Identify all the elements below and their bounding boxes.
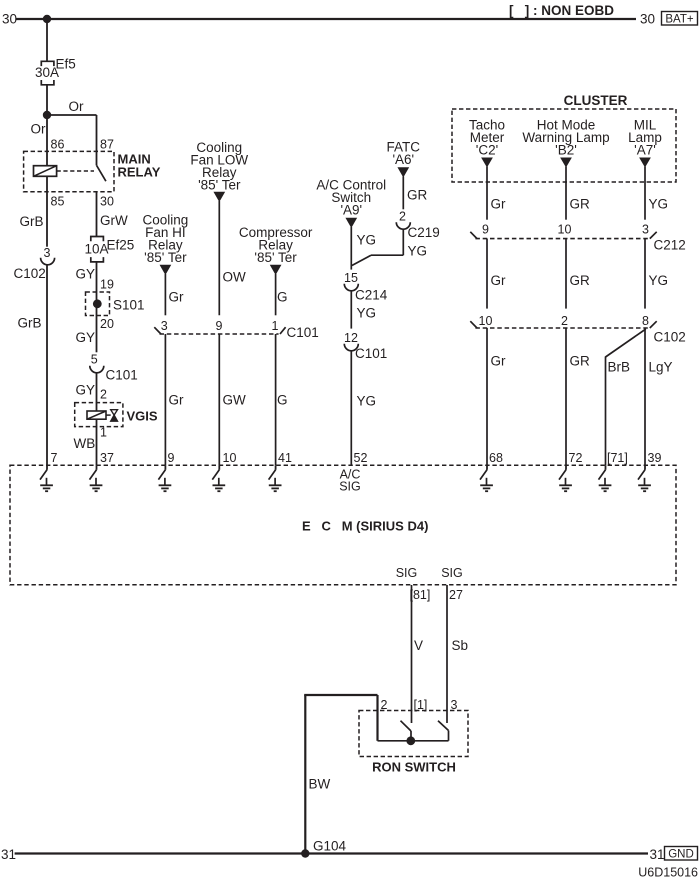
- svg-text:YG: YG: [357, 394, 377, 409]
- svg-text:5: 5: [91, 353, 98, 367]
- svg-text:WB: WB: [74, 436, 96, 451]
- svg-text:30A: 30A: [35, 65, 59, 80]
- svg-text:41: 41: [278, 451, 292, 465]
- svg-text:GY: GY: [76, 330, 96, 345]
- svg-text:12: 12: [344, 331, 358, 345]
- svg-text:20: 20: [100, 317, 114, 331]
- svg-text:9: 9: [216, 319, 223, 333]
- svg-text:SIG: SIG: [339, 480, 361, 494]
- svg-text:Ef25: Ef25: [107, 238, 135, 253]
- svg-text:Or: Or: [31, 122, 47, 137]
- svg-text:GY: GY: [76, 383, 96, 398]
- svg-text:Gr: Gr: [491, 197, 507, 212]
- svg-text:9: 9: [482, 223, 489, 237]
- svg-text:85: 85: [51, 195, 65, 209]
- svg-text:19: 19: [100, 278, 114, 292]
- svg-text:'A6': 'A6': [392, 152, 414, 167]
- svg-text:OW: OW: [223, 270, 247, 285]
- svg-text:7: 7: [51, 451, 58, 465]
- svg-text:BrB: BrB: [608, 360, 631, 375]
- svg-text:S101: S101: [113, 298, 145, 313]
- svg-text:31: 31: [1, 847, 16, 862]
- svg-text:LgY: LgY: [649, 360, 673, 375]
- svg-text:RELAY: RELAY: [118, 165, 161, 180]
- svg-text:10: 10: [558, 223, 572, 237]
- svg-text:U6D15016: U6D15016: [638, 866, 698, 880]
- svg-text:C212: C212: [654, 237, 686, 252]
- svg-text:27: 27: [449, 588, 463, 602]
- svg-text:GR: GR: [407, 188, 428, 203]
- svg-text:GrB: GrB: [18, 316, 42, 331]
- svg-text:10: 10: [223, 451, 237, 465]
- svg-text:8: 8: [642, 314, 649, 328]
- svg-text:CLUSTER: CLUSTER: [564, 93, 628, 108]
- svg-text:C101: C101: [106, 368, 138, 383]
- svg-text:GR: GR: [570, 273, 591, 288]
- svg-text:Gr: Gr: [491, 354, 507, 369]
- svg-text:YG: YG: [649, 197, 669, 212]
- svg-text:Sb: Sb: [452, 638, 469, 653]
- svg-text:YG: YG: [357, 306, 377, 321]
- svg-text:'85' Ter: '85' Ter: [254, 250, 297, 265]
- svg-text:87: 87: [100, 138, 114, 152]
- svg-text:'85' Ter: '85' Ter: [198, 178, 241, 193]
- svg-text:30: 30: [100, 195, 114, 209]
- svg-text:2: 2: [561, 314, 568, 328]
- svg-text:E C M (SIRIUS D4): E C M (SIRIUS D4): [302, 519, 428, 534]
- svg-text:2: 2: [399, 210, 406, 224]
- svg-text:GR: GR: [570, 197, 591, 212]
- svg-text:Gr: Gr: [169, 393, 185, 408]
- svg-text:72: 72: [569, 451, 583, 465]
- svg-text:GrB: GrB: [20, 214, 44, 229]
- svg-text:39: 39: [648, 451, 662, 465]
- svg-text:GrW: GrW: [100, 213, 128, 228]
- svg-text:10A: 10A: [85, 242, 109, 257]
- svg-text:[71]: [71]: [607, 451, 628, 465]
- svg-text:2: 2: [100, 388, 107, 402]
- svg-text:[81]: [81]: [410, 588, 431, 602]
- svg-text:'85' Ter: '85' Ter: [144, 250, 187, 265]
- svg-text:SIG: SIG: [441, 566, 463, 580]
- svg-text:Gr: Gr: [491, 273, 507, 288]
- svg-text:3: 3: [642, 223, 649, 237]
- svg-text:C102: C102: [14, 266, 46, 281]
- svg-text:C101: C101: [355, 346, 387, 361]
- svg-text:YG: YG: [649, 273, 669, 288]
- svg-text:GND: GND: [668, 848, 694, 860]
- svg-text:86: 86: [51, 138, 65, 152]
- svg-text:'A9': 'A9': [340, 203, 362, 218]
- svg-text:Or: Or: [69, 99, 85, 114]
- svg-text:9: 9: [168, 451, 175, 465]
- svg-text:31: 31: [650, 847, 665, 862]
- svg-text:C219: C219: [408, 225, 440, 240]
- svg-text:BW: BW: [309, 777, 331, 792]
- svg-text:30: 30: [640, 12, 655, 27]
- svg-text:G104: G104: [313, 839, 347, 854]
- svg-text:G: G: [277, 290, 288, 305]
- svg-text:GW: GW: [223, 393, 247, 408]
- svg-text:VGIS: VGIS: [127, 409, 158, 424]
- svg-text:C101: C101: [287, 325, 319, 340]
- svg-text:C102: C102: [654, 329, 686, 344]
- svg-text:[ ] : NON EOBD: [ ] : NON EOBD: [509, 3, 614, 18]
- svg-text:Gr: Gr: [169, 290, 185, 305]
- svg-text:YG: YG: [357, 233, 377, 248]
- svg-text:GY: GY: [76, 267, 96, 282]
- svg-text:1: 1: [272, 319, 279, 333]
- svg-text:1: 1: [100, 426, 107, 440]
- svg-text:'B2': 'B2': [555, 143, 577, 158]
- svg-text:10: 10: [479, 314, 493, 328]
- svg-text:V: V: [414, 638, 423, 653]
- svg-text:GR: GR: [570, 354, 591, 369]
- svg-text:3: 3: [161, 319, 168, 333]
- svg-text:37: 37: [100, 451, 114, 465]
- svg-text:RON SWITCH: RON SWITCH: [372, 760, 456, 775]
- svg-text:30: 30: [2, 12, 17, 27]
- svg-text:68: 68: [489, 451, 503, 465]
- svg-text:BAT+: BAT+: [665, 13, 694, 25]
- svg-text:YG: YG: [408, 243, 428, 258]
- svg-text:'A7': 'A7': [634, 143, 656, 158]
- svg-text:C214: C214: [355, 288, 388, 303]
- svg-text:G: G: [277, 393, 288, 408]
- svg-text:52: 52: [354, 451, 368, 465]
- svg-text:15: 15: [344, 271, 358, 285]
- svg-text:'C2': 'C2': [476, 143, 498, 158]
- svg-text:SIG: SIG: [396, 566, 418, 580]
- svg-text:3: 3: [44, 246, 51, 260]
